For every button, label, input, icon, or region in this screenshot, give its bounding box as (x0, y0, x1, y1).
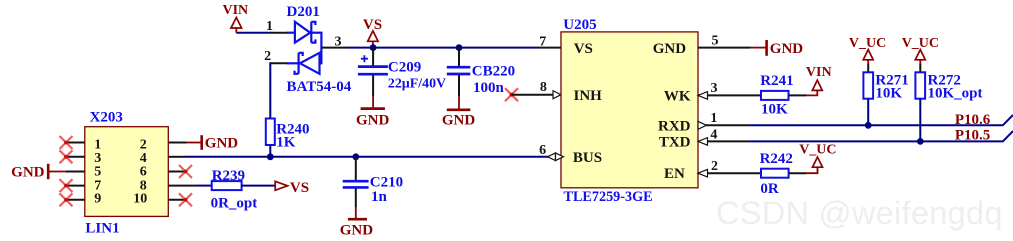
TXD net wire to P10.5 (750, 131, 1013, 141)
pin 8 INH wire (512, 80, 554, 95)
svg-text:1K: 1K (276, 134, 296, 150)
svg-text:C210: C210 (370, 174, 403, 190)
no-ERC cross pin 3 (60, 150, 73, 163)
ground below C210 (340, 207, 374, 238)
svg-text:TXD: TXD (659, 134, 691, 150)
junction dot at CB220 (456, 44, 463, 51)
svg-text:CSDN @weifengdq: CSDN @weifengdq (716, 195, 1003, 231)
svg-text:RXD: RXD (658, 118, 691, 134)
no-ERC cross pin 7 (60, 179, 73, 192)
TXD pin arrow (input) (698, 138, 708, 146)
X203 pin 3 stub (66, 156, 85, 158)
ground at pin 5 (750, 40, 803, 57)
svg-text:GND: GND (653, 41, 687, 57)
svg-text:GND: GND (205, 136, 239, 152)
U205 IC body (561, 32, 698, 188)
svg-text:GND: GND (356, 113, 390, 129)
svg-text:6: 6 (539, 143, 546, 158)
pin 2 EN wire (698, 159, 761, 174)
svg-text:5: 5 (712, 33, 719, 48)
ground at X203 pin 5 (11, 164, 66, 181)
svg-text:U205: U205 (563, 17, 596, 33)
svg-text:C209: C209 (388, 60, 421, 76)
power port V_UC (at R271) (849, 36, 886, 65)
svg-text:R242: R242 (760, 151, 793, 167)
capacitor C210 (343, 157, 369, 207)
ground below CB220 (442, 96, 476, 129)
connector X203 body (85, 127, 169, 217)
pin 6 BUS stub with bidirectional arrow (539, 143, 563, 161)
svg-text:5: 5 (94, 165, 101, 180)
svg-text:2: 2 (711, 159, 718, 174)
X203 pin 1 stub (66, 142, 85, 144)
no-ERC cross on INH wire (505, 88, 518, 101)
resistor R271 (863, 64, 873, 125)
resistor R242 (761, 169, 806, 178)
svg-text:8: 8 (540, 80, 547, 95)
svg-text:VS: VS (290, 180, 309, 196)
svg-text:GND: GND (770, 41, 804, 57)
svg-text:R239: R239 (212, 168, 245, 184)
pin 1 RXD wire (698, 111, 750, 126)
power port VIN (at R241) (806, 65, 832, 95)
power port VIN (top left) (223, 3, 249, 33)
X203 pin 6 stub (168, 171, 185, 173)
diode D201 bottom half (cathode left, anode right) (287, 53, 322, 74)
EN pin arrow (698, 169, 708, 177)
svg-text:X203: X203 (90, 109, 123, 125)
svg-text:10K: 10K (875, 85, 902, 101)
INH pin arrow (553, 91, 561, 99)
svg-text:3: 3 (711, 81, 718, 96)
capacitor C209 (polarized) (358, 48, 388, 96)
resistor R240 (266, 119, 275, 157)
capacitor CB220 (447, 48, 471, 96)
VS rail wire to U205 pin 7 (347, 47, 538, 49)
D201 common vertical tie (320, 32, 322, 65)
junction dot R240/BUS (267, 153, 274, 160)
pin 7 stub (538, 35, 561, 50)
svg-text:10K: 10K (761, 101, 788, 117)
svg-text:VS: VS (574, 41, 593, 57)
diode D201 top half (anode left, cathode right) (287, 22, 322, 43)
svg-text:2: 2 (264, 49, 271, 64)
svg-text:1: 1 (710, 111, 717, 126)
RXD net wire to P10.6 (750, 115, 1013, 125)
svg-text:V_UC: V_UC (799, 143, 836, 158)
net label VS with arrow (275, 180, 309, 196)
X203 pin 8 stub (168, 185, 196, 187)
svg-text:R241: R241 (760, 73, 793, 89)
svg-text:EN: EN (664, 166, 685, 182)
junction dot C210/BUS (352, 153, 359, 160)
power port VS (363, 17, 382, 48)
pin 3 WK wire (698, 81, 761, 96)
BUS net wire X203 pin4 to U205 pin6 (183, 156, 549, 158)
X203 pin 7 stub (66, 185, 85, 187)
no-ERC cross pin 10 (179, 193, 192, 206)
svg-text:10K_opt: 10K_opt (928, 85, 983, 101)
no-ERC cross pin 9 (60, 193, 73, 206)
svg-text:P10.5: P10.5 (955, 128, 990, 144)
resistor R241 (761, 91, 806, 100)
svg-text:TLE7259-3GE: TLE7259-3GE (564, 189, 653, 205)
svg-text:V_UC: V_UC (849, 36, 886, 51)
ground at X203 pin 2 (187, 135, 239, 152)
junction dot TXD/R272 (917, 138, 924, 145)
svg-text:0R_opt: 0R_opt (211, 196, 258, 212)
svg-text:P10.6: P10.6 (955, 112, 991, 128)
wire pin8 to R239 (196, 185, 212, 187)
svg-text:GND: GND (340, 222, 374, 238)
svg-text:100n: 100n (473, 80, 505, 96)
svg-text:3: 3 (335, 35, 342, 50)
junction dot RXD/R271 (865, 122, 872, 129)
svg-text:D201: D201 (287, 4, 320, 20)
svg-text:GND: GND (11, 165, 45, 181)
X203 pin 5 stub (66, 171, 85, 173)
wire D201 pin2 down to R240 (269, 62, 271, 118)
svg-text:1: 1 (266, 19, 273, 34)
X203 pin 2 stub (168, 142, 186, 144)
svg-text:7: 7 (539, 35, 546, 50)
power port V_UC (at R242) (799, 143, 836, 174)
svg-text:10: 10 (133, 192, 147, 207)
pin 5 GND wire (698, 33, 750, 48)
svg-text:INH: INH (574, 88, 603, 104)
power port V_UC (at R272) (902, 36, 939, 65)
X203 pin 10 stub (168, 199, 185, 201)
svg-text:4: 4 (710, 128, 717, 143)
svg-text:1n: 1n (371, 189, 388, 205)
X203 pin numbers right column (133, 138, 147, 207)
svg-text:0R: 0R (760, 181, 779, 197)
pin 3 of D201 (321, 35, 347, 50)
svg-text:22µF/40V: 22µF/40V (388, 77, 446, 92)
svg-text:BAT54-04: BAT54-04 (287, 79, 352, 95)
svg-text:CB220: CB220 (472, 64, 515, 80)
svg-text:VIN: VIN (806, 65, 832, 80)
X203 pin 4 stub (168, 156, 183, 158)
ground below C209 (356, 96, 390, 129)
svg-text:9: 9 (94, 192, 101, 207)
svg-text:WK: WK (664, 88, 691, 104)
resistor R239 (212, 181, 276, 190)
X203 pin 9 stub (66, 199, 85, 201)
pin 2 of D201 (264, 49, 287, 64)
junction dot at VS (370, 44, 377, 51)
X203 pin numbers left column (94, 138, 101, 207)
pin 1 of D201 (266, 19, 288, 34)
svg-text:LIN1: LIN1 (85, 220, 119, 236)
pin 4 TXD wire (698, 128, 750, 143)
no-ERC cross pin 6 (179, 165, 192, 178)
svg-text:VIN: VIN (223, 3, 249, 18)
svg-text:GND: GND (442, 113, 476, 129)
no-ERC cross pin 1 (60, 136, 73, 149)
WK pin arrow (698, 92, 708, 100)
svg-text:6: 6 (140, 165, 147, 180)
RXD pin arrow (output) (698, 121, 706, 129)
resistor R272 (915, 64, 925, 141)
svg-text:BUS: BUS (573, 150, 602, 166)
wire VIN to D201 pin1 (236, 32, 270, 34)
